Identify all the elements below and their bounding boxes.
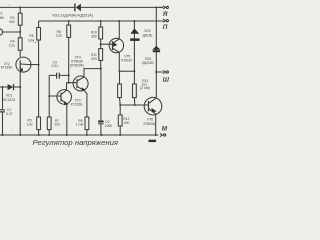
node rail / R12: [119, 134, 121, 136]
label C3: [52, 61, 59, 68]
node R13b bottom: [134, 104, 136, 106]
svg-text:2,2к: 2,2к: [56, 34, 63, 38]
resistor R13b: [133, 71, 137, 105]
label VD3: [143, 29, 154, 37]
label C2: [105, 120, 113, 128]
svg-text:КС147А: КС147А: [3, 98, 16, 102]
node rail / VT6 emitter: [155, 134, 157, 136]
svg-text:П: П: [163, 24, 168, 31]
transistor VT3: [49, 90, 71, 106]
node R13 top: [119, 70, 121, 72]
wire VT2 collector to R6 column: [31, 64, 39, 66]
node rail2 / R10: [100, 20, 102, 22]
label VD2 value: [52, 13, 93, 17]
label VT2: [1, 62, 13, 70]
resistor R3: [18, 7, 22, 32]
node VT2 collector: [38, 64, 40, 66]
label VT5: [121, 55, 132, 63]
resistor R9: [85, 117, 89, 135]
node top rail / R3: [19, 6, 21, 8]
svg-text:(КТ803А): (КТ803А): [70, 63, 84, 67]
svg-text:R6: R6: [29, 34, 33, 38]
node rail / R9: [86, 134, 88, 136]
transistor VT2: [16, 57, 31, 72]
label VT6: [144, 118, 156, 126]
resistor R8: [67, 21, 71, 83]
svg-text:КТ814Г: КТ814Г: [121, 58, 132, 62]
node rail / VT2 emitter: [19, 134, 21, 136]
wire VT3 collector up to VT4 base node: [66, 83, 68, 91]
resistor R13a: [118, 71, 122, 105]
svg-text:0,01: 0,01: [52, 64, 59, 68]
terminal Я: [158, 6, 169, 9]
node rail2 / VT5 emitter: [118, 20, 120, 22]
node Ш branch: [155, 71, 157, 73]
wire VT5 collector down: [118, 53, 120, 72]
diode VD2: [74, 4, 81, 12]
wire VT4 collector to R11 bottom: [84, 69, 101, 78]
label VD1: [3, 94, 16, 102]
terminal Ш: [156, 70, 168, 73]
resistor R12: [118, 105, 122, 135]
wire second rail: [39, 20, 164, 22]
caption: [33, 138, 119, 147]
wire VT5 emitter from rail2: [118, 21, 120, 39]
terminal М: [160, 133, 166, 136]
svg-text:6,8к: 6,8к: [28, 39, 35, 43]
wire VT6 emitter down: [155, 114, 157, 135]
label R13: [140, 79, 150, 90]
ground: [149, 140, 157, 142]
wire VD4 to VT6 collector: [155, 72, 157, 98]
svg-text:1,6к: 1,6к: [27, 122, 34, 126]
node rail2 / R8: [68, 20, 70, 22]
svg-text:Я: Я: [162, 11, 168, 18]
svg-text:1 Ом: 1 Ом: [75, 123, 83, 127]
transistor VT5: [109, 38, 123, 52]
label R9: [75, 119, 83, 127]
node rail / C2: [101, 134, 103, 136]
node top rail / VD4: [155, 6, 157, 8]
svg-text:330: 330: [124, 121, 130, 125]
diode VD1: [0, 84, 20, 90]
svg-text:300: 300: [91, 34, 97, 38]
wire VT5 base: [101, 43, 113, 45]
label R6: [28, 34, 35, 42]
resistor R6: [37, 21, 41, 65]
node C3 right / R8 column: [68, 74, 70, 76]
label R7: [54, 119, 60, 127]
wire top rail: [0, 6, 163, 8]
svg-text:М: М: [162, 126, 168, 133]
capacitor C1: [0, 87, 5, 135]
svg-text:600: 600: [9, 20, 15, 24]
wire VT3 emitter down to bottom rail: [66, 104, 68, 135]
svg-text:0Вт: 0Вт: [0, 16, 5, 20]
terminal П: [163, 19, 168, 22]
node VD1 left / C1: [2, 86, 4, 88]
wire VT6 base: [120, 104, 148, 106]
wire R11 node down to C2: [100, 69, 102, 121]
wire R13 pair top link: [120, 70, 135, 72]
svg-text:200: 200: [91, 57, 97, 61]
svg-text:VD2 2хД243А(4хД231А): VD2 2хД243А(4хД231А): [52, 13, 93, 17]
label R10: [91, 31, 97, 39]
svg-text:Т1: Т1: [0, 11, 3, 15]
resistor R10: [99, 21, 103, 49]
connector X1: [0, 29, 3, 35]
svg-text:Регулятор напряжения: Регулятор напряжения: [33, 138, 119, 147]
label R5: [27, 119, 34, 127]
label R4: [9, 40, 16, 48]
node rail / VT3 emitter: [66, 134, 68, 136]
node rail2 / VD3: [133, 20, 135, 22]
node R3/R4 junction: [19, 31, 21, 33]
capacitor C3: [49, 73, 68, 79]
label VT4: [70, 55, 84, 67]
svg-text:КД202Б: КД202Б: [142, 61, 154, 65]
wire VT4 emitter to R9: [84, 91, 87, 117]
resistor R5: [37, 65, 41, 135]
svg-text:КТ315Б: КТ315Б: [71, 102, 83, 106]
svg-text:200: 200: [54, 123, 60, 127]
wire C3 left lead down to VT3 base: [48, 75, 50, 117]
svg-text:2,2к: 2,2к: [9, 43, 16, 47]
label VT3: [71, 99, 83, 107]
transistor VT4: [67, 76, 89, 91]
resistor R4: [18, 32, 22, 57]
label C1: [6, 108, 13, 116]
svg-text:Ш: Ш: [163, 77, 170, 84]
node R13b top / VD3 bottom: [133, 70, 135, 72]
svg-text:VD1: VD1: [6, 94, 13, 98]
node VT4 base / R8: [68, 82, 70, 84]
node R13a bottom: [119, 104, 121, 106]
wire VT2 emitter down to bottom rail: [19, 72, 21, 135]
wire bottom rail: [0, 134, 158, 136]
label R3: [9, 16, 15, 24]
label X1: [0, 11, 5, 20]
node R11 bottom / VT4 collector: [100, 68, 102, 70]
label R12: [123, 117, 129, 125]
node rail / R5: [38, 134, 40, 136]
transistor VT6: [144, 97, 162, 115]
label R11: [91, 53, 97, 61]
resistor R7: [47, 117, 51, 135]
node rail / R7: [48, 134, 50, 136]
label R8: [56, 30, 63, 38]
node rail / C1: [2, 134, 4, 136]
svg-text:0,47: 0,47: [6, 112, 13, 116]
node VT3 base tee: [48, 95, 50, 97]
svg-text:КТ805А: КТ805А: [144, 122, 156, 126]
node VT5 base tee: [100, 43, 102, 45]
capacitor C2 electrolytic: [98, 121, 104, 136]
diode VD4: [152, 7, 160, 72]
svg-text:КТ315Б: КТ315Б: [1, 66, 13, 70]
label VD4: [142, 57, 154, 65]
svg-text:Д815Е: Д815Е: [143, 33, 154, 37]
diode VD3: [130, 21, 139, 71]
speck noise: [9, 5, 65, 131]
svg-text:1000: 1000: [105, 124, 113, 128]
svg-text:R12: R12: [123, 117, 129, 121]
wire base of VT2 from connector: [3, 31, 21, 33]
node VD1 right / VT2 emitter: [19, 86, 21, 88]
resistor R11: [99, 49, 103, 69]
svg-text:(2 Ом): (2 Ом): [140, 86, 150, 90]
